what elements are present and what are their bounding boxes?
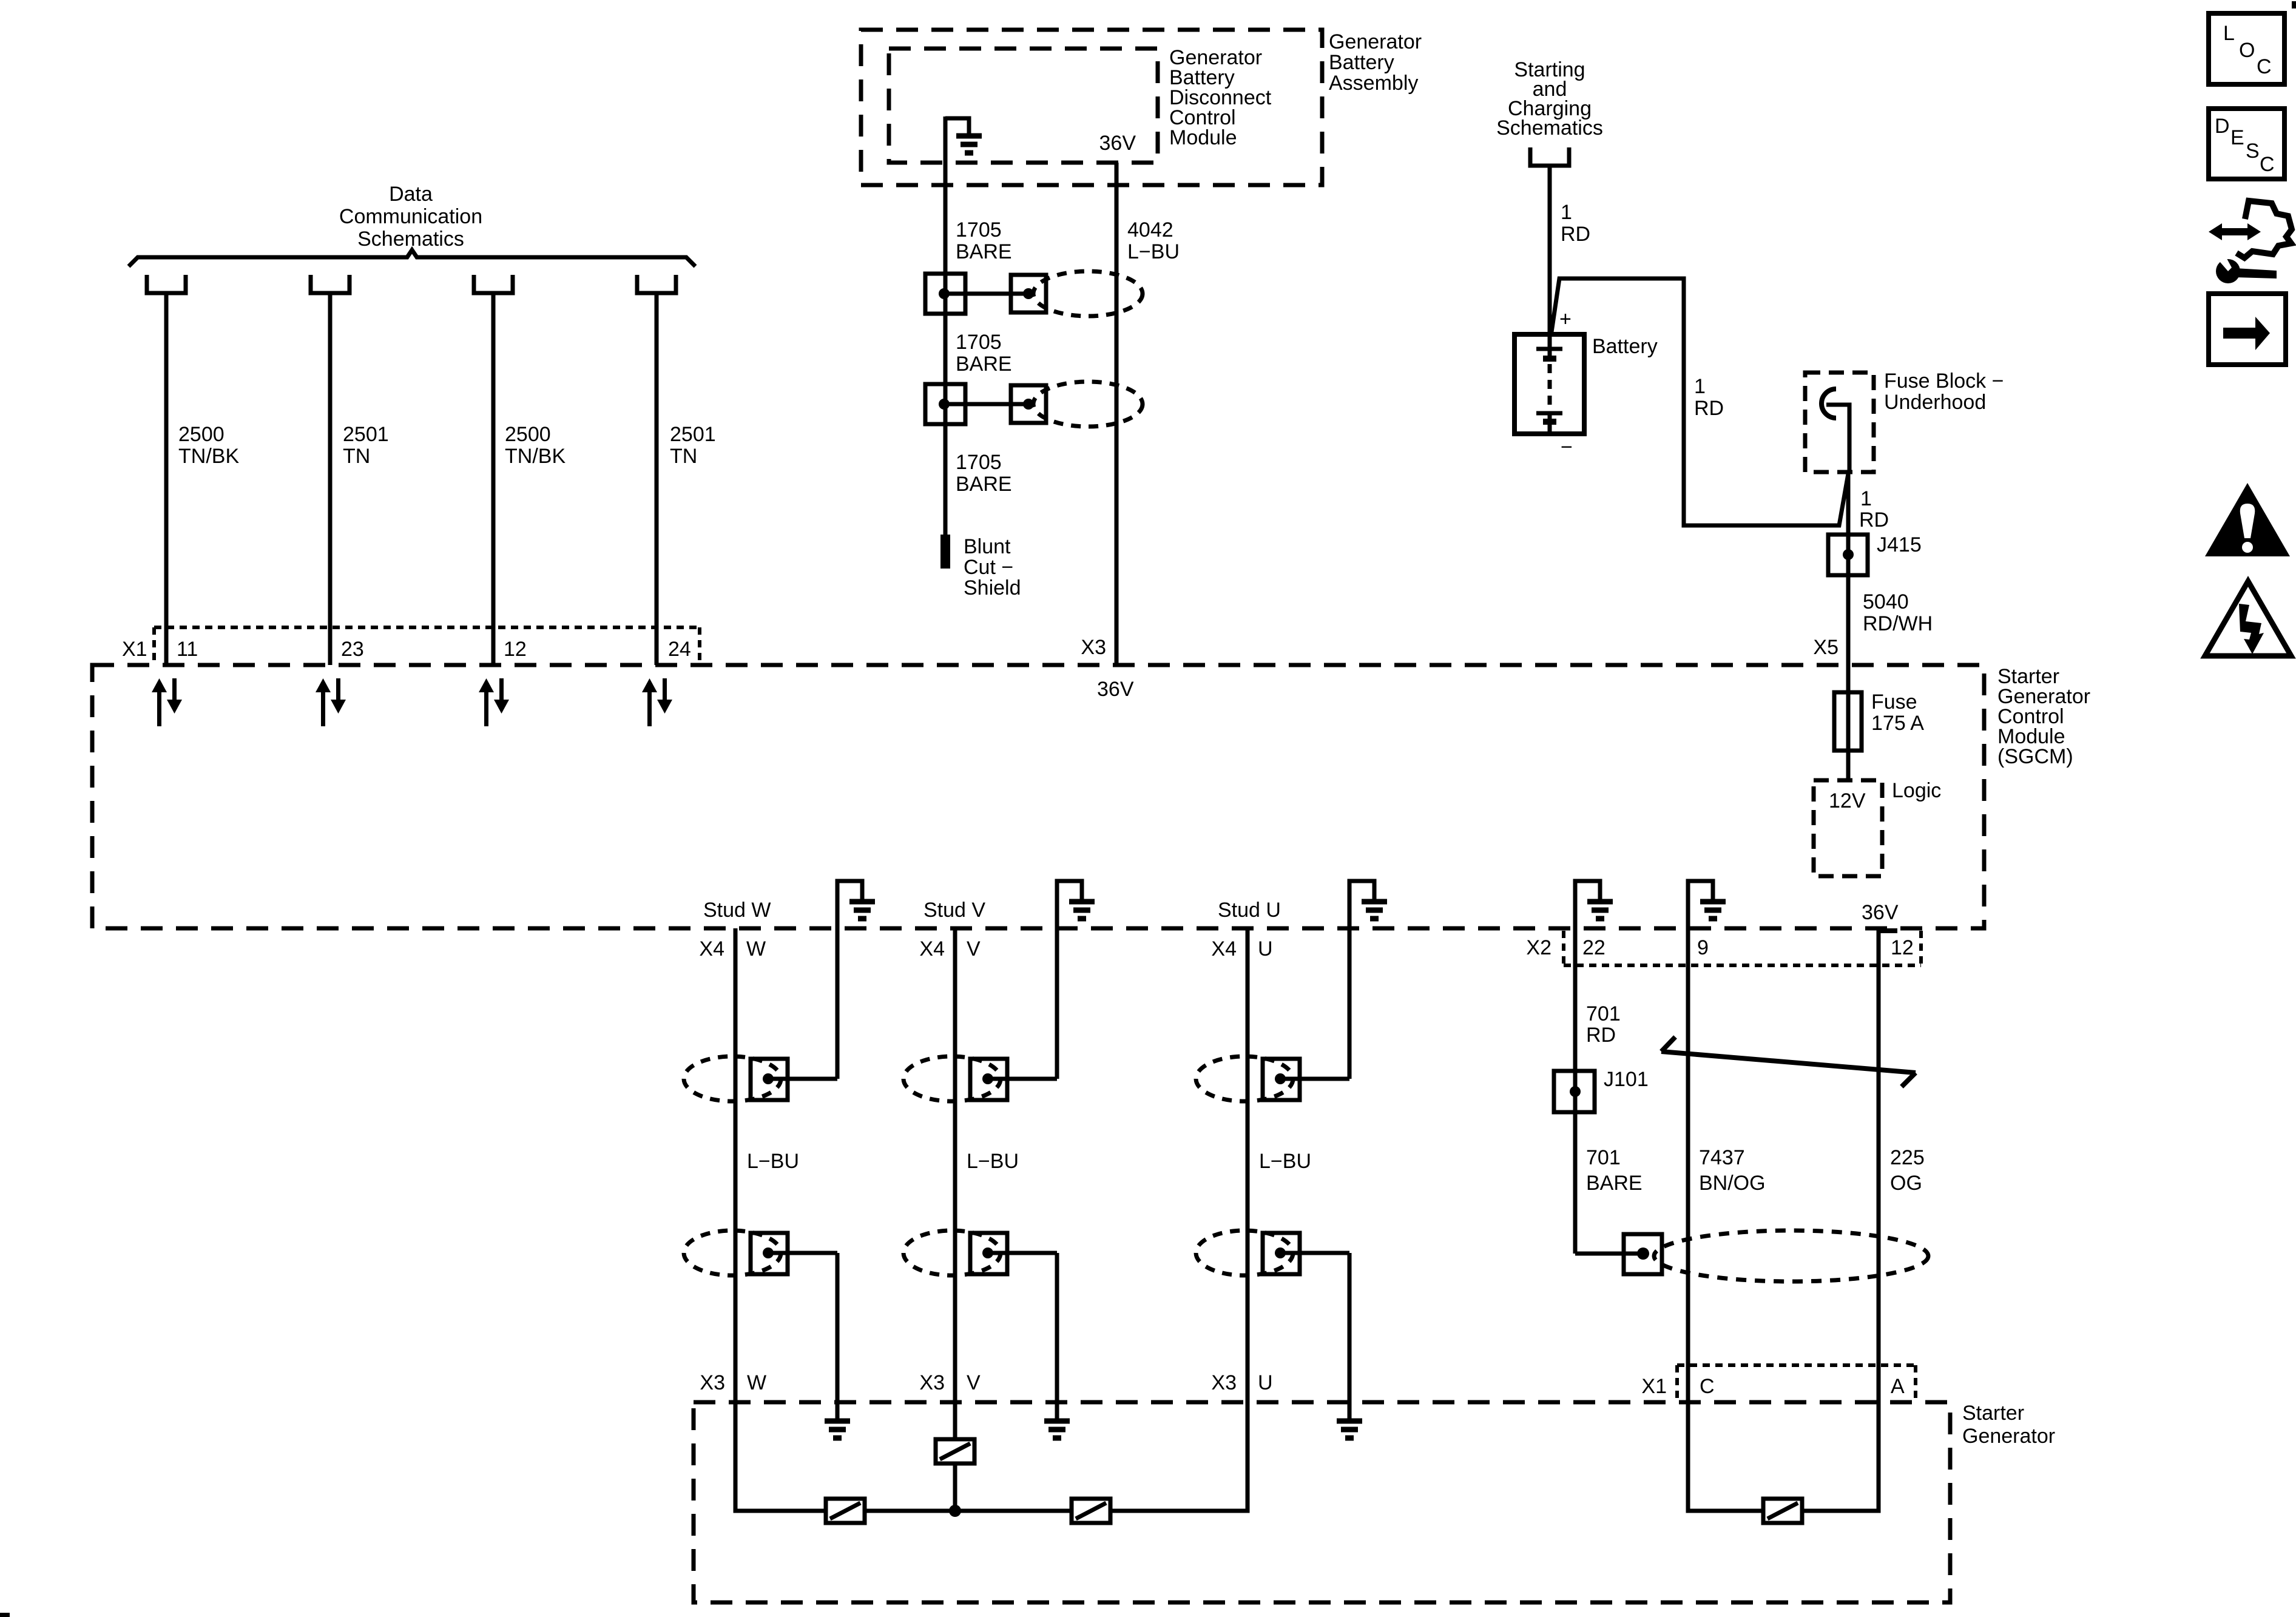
shield splice lower on stud U	[1196, 1230, 1293, 1275]
junction J101	[1554, 1071, 1595, 1112]
svg-text:Data: Data	[389, 183, 433, 206]
wire 2500 TN/BK to pin 11	[164, 293, 169, 665]
pin X4 V labels	[919, 937, 981, 960]
svg-text:RD: RD	[1859, 508, 1889, 532]
winding V (vertical)	[936, 1439, 974, 1463]
pin X5 of SGCM	[1813, 636, 1838, 659]
svg-text:U: U	[1258, 937, 1273, 960]
label Logic	[1892, 779, 1941, 802]
shield ellipse around 7437 and 225 wires	[1654, 1230, 1928, 1281]
ground symbol above X4 (stud U)	[1362, 902, 1387, 919]
clip symbol inside fuse block	[1822, 389, 1836, 418]
svg-text:2501: 2501	[343, 423, 389, 446]
ground drain wire for stud W (lower)	[836, 1253, 840, 1421]
svg-text:W: W	[747, 1371, 766, 1394]
shield splice upper on stud U	[1196, 1056, 1293, 1101]
label Stud V	[923, 899, 985, 922]
svg-text:1705: 1705	[956, 331, 1002, 354]
svg-text:RD/WH: RD/WH	[1863, 612, 1933, 635]
svg-text:BARE: BARE	[1586, 1172, 1643, 1195]
svg-text:Blunt: Blunt	[964, 535, 1011, 558]
svg-text:36V: 36V	[1862, 901, 1899, 924]
icon service/repair (arrow, panel, wrench)	[2209, 223, 2261, 240]
off-page connector pin 12	[474, 275, 513, 293]
winding wire stud W to junction	[735, 1402, 826, 1511]
svg-text:BARE: BARE	[956, 240, 1012, 263]
svg-text:X5: X5	[1813, 636, 1838, 659]
ground drain wire for stud V (upper)	[1057, 881, 1082, 1079]
svg-text:L−BU: L−BU	[1259, 1150, 1311, 1173]
svg-text:RD: RD	[1586, 1024, 1616, 1047]
junction J415	[1828, 535, 1868, 575]
battery B1	[1514, 334, 1584, 434]
label 1705 BARE (third)	[956, 451, 1012, 496]
ground symbol above X4 (stud W)	[849, 902, 875, 919]
bidirectional arrows pin 11	[152, 678, 182, 726]
label Blunt Cut Shield	[964, 535, 1021, 599]
label Generator Battery Disconnect Control Module	[1169, 46, 1272, 149]
label 1 RD (second)	[1694, 375, 1724, 420]
fuse 175A inside SGCM	[1846, 665, 1851, 780]
svg-text:A: A	[1891, 1375, 1905, 1398]
label X2	[1526, 936, 1913, 959]
svg-text:Battery: Battery	[1329, 51, 1394, 74]
ground drain wire for stud W (upper)	[837, 881, 862, 1079]
wire junction to winding V-U	[955, 1509, 1072, 1513]
connector X1 pin row (top)	[154, 627, 700, 663]
winding W-V	[826, 1499, 865, 1523]
wire Stud U (L-BU)	[1246, 928, 1250, 1402]
shield ellipse upper around 4042 wire	[1033, 271, 1143, 316]
bidirectional arrows pin 24	[642, 678, 672, 726]
label J101	[1604, 1068, 1649, 1091]
wire branch to fuse block (1 RD)	[1551, 279, 1848, 525]
wire 701 RD from pin 22	[1573, 928, 1578, 1254]
svg-text:Assembly: Assembly	[1329, 72, 1418, 95]
svg-text:RD: RD	[1694, 397, 1724, 420]
wire winding to stud U	[1110, 1402, 1248, 1511]
svg-text:TN: TN	[343, 445, 370, 468]
label 36V at pin 12	[1862, 901, 1899, 924]
ground drain at X2 pin 9 (hook)	[1688, 881, 1713, 928]
svg-text:11: 11	[177, 638, 198, 661]
icon warning triangle	[2205, 483, 2290, 556]
svg-text:Underhood: Underhood	[1884, 391, 1986, 414]
icon DESC legend box	[2209, 109, 2284, 179]
pin X3 of SGCM	[1081, 636, 1133, 701]
svg-text:O: O	[2239, 39, 2255, 62]
module Generator Battery Assembly (dashed box)	[861, 30, 1322, 185]
svg-text:Generator: Generator	[1962, 1425, 2055, 1448]
svg-text:W: W	[746, 937, 766, 960]
svg-text:S: S	[2246, 140, 2260, 163]
wire 2501 TN to pin 24	[655, 293, 659, 665]
svg-text:4042: 4042	[1127, 218, 1173, 241]
shield splice upper on stud W	[684, 1056, 781, 1101]
wire 7437 BN/OG from pin 9	[1686, 928, 1690, 1402]
label Stud U	[1218, 899, 1281, 922]
label X1	[122, 638, 691, 661]
svg-text:X3: X3	[919, 1371, 945, 1394]
shield splice upper on stud V	[903, 1056, 1001, 1101]
svg-text:22: 22	[1582, 936, 1606, 959]
svg-text:Generator: Generator	[1329, 30, 1422, 53]
svg-text:J101: J101	[1604, 1068, 1649, 1091]
wire 1705 BARE shield drain	[944, 116, 948, 536]
label X1 (starter generator)	[1641, 1375, 1905, 1398]
brace over data communication wires	[129, 250, 695, 266]
splice shield connector lower (squares with dots)	[925, 384, 965, 424]
svg-text:X4: X4	[919, 937, 945, 960]
svg-text:TN: TN	[670, 445, 697, 468]
svg-text:225: 225	[1890, 1146, 1925, 1169]
label 701 RD	[1586, 1002, 1621, 1047]
svg-text:(SGCM): (SGCM)	[1997, 745, 2073, 768]
label 1705 BARE	[956, 218, 1012, 263]
svg-text:L−BU: L−BU	[967, 1150, 1019, 1173]
svg-text:Communication: Communication	[339, 205, 482, 228]
pin X3 W labels	[700, 1371, 766, 1394]
svg-text:RD: RD	[1561, 223, 1590, 246]
label Stud W	[703, 899, 771, 922]
ground drain wire for stud U (upper)	[1349, 881, 1374, 1079]
wire inside fuse block to J415	[1826, 405, 1849, 474]
shield splice lower on stud W	[684, 1230, 781, 1275]
svg-text:X1: X1	[1641, 1375, 1667, 1398]
label 1 RD (third)	[1859, 487, 1889, 532]
label 2500 TN/BK	[178, 423, 239, 468]
svg-text:Module: Module	[1169, 126, 1237, 149]
ground symbol below X3 (stud W)	[825, 1421, 850, 1438]
off-page connector pin 24	[637, 275, 676, 293]
off-page connector pin 11	[147, 275, 186, 293]
pin X3 V labels	[919, 1371, 981, 1394]
svg-text:D: D	[2215, 115, 2230, 138]
page mark top right	[2292, 1, 2296, 8]
svg-text:12: 12	[1891, 936, 1914, 959]
svg-text:36V: 36V	[1099, 132, 1136, 155]
svg-text:L−BU: L−BU	[1127, 240, 1180, 263]
icon LOC legend box	[2209, 13, 2284, 84]
svg-text:9: 9	[1697, 936, 1709, 959]
shield splice lower on stud V	[903, 1230, 1001, 1275]
label 225 OG	[1890, 1146, 1925, 1195]
shield ellipse lower around 4042 wire	[1033, 382, 1143, 427]
label battery plus	[1559, 308, 1572, 331]
svg-text:12: 12	[504, 638, 527, 661]
winding V-U	[1072, 1499, 1110, 1523]
wire winding to junction	[865, 1509, 955, 1513]
label Fuse Block Underhood	[1884, 370, 2004, 414]
ground symbol above X2 pin 22	[1587, 902, 1613, 919]
svg-text:2500: 2500	[505, 423, 551, 446]
svg-text:BARE: BARE	[956, 353, 1012, 376]
wire 5040 RD/WH	[1846, 575, 1851, 665]
label 36V at disconnect module	[1099, 132, 1136, 155]
node Starting and Charging Schematics label	[1496, 58, 1603, 140]
svg-text:Shield: Shield	[964, 576, 1021, 599]
svg-text:Fuse Block −: Fuse Block −	[1884, 370, 2004, 393]
label 1705 BARE (second)	[956, 331, 1012, 376]
wire pin C to armature winding	[1688, 1402, 1763, 1511]
svg-text:J415: J415	[1877, 533, 1922, 556]
ground drain wire for stud V (lower)	[1055, 1253, 1059, 1421]
svg-text:Schematics: Schematics	[357, 228, 464, 251]
svg-text:X2: X2	[1526, 936, 1551, 959]
svg-text:X3: X3	[1081, 636, 1106, 659]
svg-text:X1: X1	[122, 638, 147, 661]
module Starter Generator (dashed box)	[694, 1402, 1950, 1602]
svg-text:C: C	[2257, 55, 2272, 78]
ground drain at X2 pin 22 (hook)	[1575, 881, 1600, 928]
armature winding C-A	[1763, 1499, 1802, 1523]
label 5040 RD/WH	[1863, 590, 1933, 635]
label 2501 TN (second)	[670, 423, 716, 468]
label 7437 BN/OG	[1699, 1146, 1766, 1195]
svg-text:C: C	[1700, 1375, 1715, 1398]
pin X3 U labels	[1211, 1371, 1272, 1394]
label Battery	[1592, 335, 1658, 358]
svg-text:5040: 5040	[1863, 590, 1909, 613]
label Starter Generator Control Module (SGCM)	[1997, 665, 2090, 768]
wire 225 OG from pin 12	[1877, 928, 1881, 1402]
svg-text:−: −	[1561, 436, 1573, 459]
icon forward arrow legend box	[2209, 294, 2286, 365]
svg-text:7437: 7437	[1699, 1146, 1745, 1169]
label L-BU (stud U)	[1259, 1150, 1311, 1173]
label 12V	[1829, 789, 1866, 812]
svg-text:175 A: 175 A	[1871, 712, 1924, 735]
svg-text:X4: X4	[1211, 937, 1237, 960]
wire 4042 L-BU (36V)	[1115, 163, 1119, 665]
svg-text:X3: X3	[1211, 1371, 1237, 1394]
svg-text:1: 1	[1860, 487, 1872, 510]
svg-text:1: 1	[1694, 375, 1706, 398]
ground symbol above X2 pin 9	[1700, 902, 1726, 919]
wire Stud V (L-BU)	[953, 928, 957, 1402]
svg-text:Logic: Logic	[1892, 779, 1941, 802]
label 2500 TN/BK (second)	[505, 423, 566, 468]
label Starter Generator	[1962, 1402, 2055, 1448]
label L-BU (stud W)	[747, 1150, 799, 1173]
svg-text:Stud U: Stud U	[1218, 899, 1281, 922]
logic block 12V (dashed box)	[1814, 780, 1882, 876]
off-page connector to starting and charging	[1530, 147, 1569, 166]
connector X1 pin row (starter generator)	[1677, 1365, 1916, 1400]
bidirectional arrows pin 23	[316, 678, 346, 726]
svg-text:TN/BK: TN/BK	[505, 445, 566, 468]
svg-text:Stud V: Stud V	[923, 899, 985, 922]
svg-text:Cut −: Cut −	[964, 556, 1013, 579]
junction node	[949, 1505, 961, 1517]
off-page connector pin 23	[311, 275, 349, 293]
svg-text:24: 24	[668, 638, 691, 661]
svg-text:Fuse: Fuse	[1871, 690, 1917, 714]
node Data Communication Schematics label	[339, 183, 482, 251]
wire Stud W (L-BU)	[734, 928, 738, 1402]
svg-text:+: +	[1559, 308, 1572, 331]
svg-text:L: L	[2223, 22, 2235, 45]
label Generator Battery Assembly	[1329, 30, 1422, 95]
label 701 BARE	[1586, 1146, 1643, 1195]
svg-text:E: E	[2230, 126, 2244, 149]
shield ring terminal on 701 BARE	[1575, 1252, 1643, 1256]
label 2501 TN	[343, 423, 389, 468]
svg-text:Stud W: Stud W	[703, 899, 771, 922]
svg-text:1705: 1705	[956, 451, 1002, 474]
ground symbol below X3 (stud U)	[1337, 1421, 1362, 1438]
svg-text:X4: X4	[699, 937, 724, 960]
label L-BU (stud V)	[967, 1150, 1019, 1173]
wire 2500 TN/BK to pin 12	[491, 293, 496, 665]
svg-text:V: V	[967, 1371, 981, 1394]
page mark bottom left	[0, 1613, 10, 1617]
svg-text:U: U	[1258, 1371, 1273, 1394]
wire 2501 TN to pin 23	[328, 293, 333, 665]
svg-text:X3: X3	[700, 1371, 725, 1394]
label J415	[1877, 533, 1922, 556]
splice shield connector upper (squares with dots)	[925, 274, 965, 314]
blunt cut shield terminal	[940, 535, 950, 569]
module Generator Battery Disconnect Control Module (dashed box)	[889, 49, 1158, 163]
svg-text:12V: 12V	[1829, 789, 1866, 812]
module Fuse Block Underhood (dashed box)	[1805, 373, 1874, 472]
svg-text:701: 701	[1586, 1146, 1621, 1169]
svg-text:1: 1	[1561, 201, 1572, 224]
svg-text:23: 23	[341, 638, 364, 661]
svg-text:Starter: Starter	[1962, 1402, 2024, 1425]
svg-text:36V: 36V	[1097, 678, 1134, 701]
connector X2 pin row	[1564, 931, 1921, 965]
wire winding to pin A	[1802, 1402, 1879, 1511]
pin X4 W labels	[699, 937, 766, 960]
ground symbol below X3 (stud V)	[1044, 1421, 1070, 1438]
label 4042 L-BU	[1127, 218, 1180, 263]
wire stud V to junction with winding	[953, 1402, 957, 1439]
label battery minus	[1561, 436, 1573, 459]
ground drain wire for stud U (lower)	[1348, 1253, 1352, 1421]
ground symbol above X4 (stud V)	[1069, 902, 1095, 919]
svg-text:2501: 2501	[670, 423, 716, 446]
svg-text:L−BU: L−BU	[747, 1150, 799, 1173]
svg-text:BARE: BARE	[956, 473, 1012, 496]
icon electrical shock triangle	[2205, 581, 2291, 656]
pin X4 U labels	[1211, 937, 1272, 960]
svg-text:TN/BK: TN/BK	[178, 445, 239, 468]
label 1 RD	[1561, 201, 1590, 246]
bidirectional arrows pin 12	[479, 678, 509, 726]
svg-text:1705: 1705	[956, 218, 1002, 241]
svg-text:BN/OG: BN/OG	[1699, 1172, 1766, 1195]
svg-text:OG: OG	[1890, 1172, 1922, 1195]
ground inside disconnect module	[945, 118, 969, 136]
module Starter Generator Control Module SGCM (dashed box)	[92, 665, 1984, 928]
wire 1 RD from connector to battery positive	[1548, 166, 1552, 347]
svg-text:V: V	[967, 937, 981, 960]
svg-text:701: 701	[1586, 1002, 1621, 1025]
svg-text:2500: 2500	[178, 423, 225, 446]
label Fuse 175 A	[1871, 690, 1924, 735]
svg-text:C: C	[2260, 153, 2275, 176]
svg-text:Battery: Battery	[1592, 335, 1658, 358]
wire 1 RD from fuse block to J415	[1846, 472, 1851, 535]
twisted pair arrow across 7437 and 225 wires	[1661, 1037, 1916, 1087]
svg-text:Schematics: Schematics	[1496, 116, 1603, 140]
